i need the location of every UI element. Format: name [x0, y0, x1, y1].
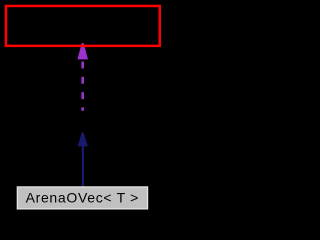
arrowhead of usage edge — [77, 43, 88, 59]
arrowhead of inheritance edge — [78, 132, 88, 146]
wire: solid inheritance edge (midnightblue) — [82, 146, 84, 187]
node: truncated class (red box) border — [6, 6, 160, 46]
node: truncated class (red box) fill — [6, 6, 160, 46]
svg-text:ArenaOVec< T >: ArenaOVec< T > — [26, 190, 139, 206]
node ArenaOVec< T > — [17, 187, 147, 209]
wire: dashed usage edge (darkorchid) — [81, 62, 84, 111]
